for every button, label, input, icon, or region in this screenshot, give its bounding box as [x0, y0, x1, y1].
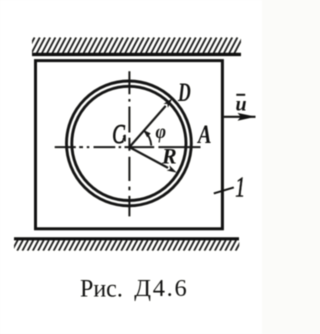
svg-text:C: C	[112, 120, 125, 150]
svg-text:Рис.: Рис.	[80, 275, 123, 303]
svg-text:φ: φ	[156, 121, 167, 143]
svg-text:1: 1	[235, 172, 245, 204]
svg-text:u: u	[236, 93, 247, 116]
svg-text:Д4.6: Д4.6	[134, 275, 188, 302]
svg-text:D: D	[177, 78, 191, 107]
svg-text:R: R	[161, 144, 177, 169]
svg-text:A: A	[196, 121, 211, 150]
